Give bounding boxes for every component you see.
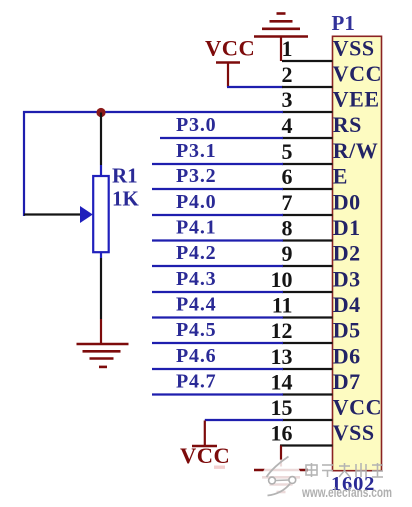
svg-text:P4.3: P4.3 (176, 268, 216, 290)
svg-text:P3.1: P3.1 (176, 140, 216, 162)
svg-text:RS: RS (333, 112, 362, 137)
wire net P4.6 (pin 13) (152, 368, 283, 370)
wire net P3.2 (pin 6) (152, 188, 283, 190)
wire net P4.3 (pin 10) (152, 291, 283, 293)
ground (bottom left) (77, 344, 129, 367)
svg-text:R/W: R/W (333, 138, 379, 163)
svg-text:D5: D5 (333, 318, 361, 343)
ground stem (bottom left) (100, 319, 102, 344)
earth ground (top, above pin 1) (254, 14, 308, 62)
svg-text:VSS: VSS (333, 36, 375, 61)
svg-text:9: 9 (282, 241, 293, 266)
wire VCC to pin 2 (227, 86, 283, 88)
svg-text:14: 14 (271, 370, 293, 395)
junction dot at R1 top net (96, 108, 105, 117)
pin 9 (282, 241, 361, 267)
pin 7 (282, 190, 361, 216)
svg-text:8: 8 (282, 216, 293, 241)
svg-text:P3.2: P3.2 (176, 165, 216, 187)
watermark logo circle (261, 457, 302, 501)
pin 5 (282, 138, 379, 164)
wire pin 16 down to ground (280, 446, 282, 467)
wire net P4.4 (pin 11) (152, 316, 283, 318)
pin 16 (271, 420, 375, 446)
svg-text:D0: D0 (333, 190, 361, 215)
wire net P3.1 (pin 5) (152, 163, 283, 165)
svg-text:5: 5 (282, 139, 293, 164)
wire pin 3 to R1 top (horizontal) (23, 111, 283, 113)
wire net P4.2 (pin 9) (152, 265, 283, 267)
ground (bottom right) (254, 470, 308, 492)
svg-text:VCC: VCC (205, 36, 255, 61)
power VCC (top) (205, 36, 255, 88)
svg-text:E: E (333, 164, 348, 189)
pin 8 (282, 215, 361, 241)
pin 3 (282, 87, 380, 113)
pin 13 (271, 344, 361, 370)
R1 top pin (blue) (100, 165, 102, 176)
wire net P4.7 (pin 14) (152, 393, 283, 395)
potentiometer wiper arrow (80, 206, 93, 223)
svg-text:VEE: VEE (333, 87, 380, 112)
svg-text:6: 6 (282, 164, 293, 189)
svg-text:D6: D6 (333, 344, 361, 369)
svg-text:R1: R1 (112, 164, 138, 188)
svg-text:P4.1: P4.1 (176, 217, 216, 239)
wire junction down to R1 (black) (100, 113, 102, 166)
wire net P4.1 (pin 8) (152, 239, 283, 241)
svg-text:VCC: VCC (333, 395, 382, 420)
svg-text:VCC: VCC (333, 61, 382, 86)
svg-text:www.elecfans.com: www.elecfans.com (301, 484, 392, 500)
svg-text:15: 15 (271, 395, 293, 420)
R1 bottom pin (blue) (100, 252, 102, 258)
svg-text:P3.0: P3.0 (176, 114, 216, 136)
power VCC (bottom) (180, 421, 230, 469)
svg-text:10: 10 (271, 267, 293, 292)
wire wiper loop bottom horizontal (24, 213, 80, 215)
wire R1 bottom to ground (black) (100, 258, 102, 319)
svg-text:P4.6: P4.6 (176, 345, 216, 367)
svg-text:P4.5: P4.5 (176, 319, 216, 341)
pin 15 (271, 395, 382, 421)
pin 1 (282, 36, 375, 62)
watermark faint dash (left of logo) (214, 466, 225, 469)
potentiometer R1 body (93, 176, 109, 252)
wire wiper loop left vertical (23, 111, 25, 216)
pin 11 (272, 292, 361, 318)
connector P1 box (1602 LCD header) (333, 36, 382, 470)
wire net P4.5 (pin 12) (152, 342, 283, 344)
svg-text:P4.4: P4.4 (176, 294, 216, 316)
svg-text:D2: D2 (333, 241, 361, 266)
pin 10 (271, 267, 361, 293)
wire net P4.0 (pin 7) (152, 214, 283, 216)
svg-text:1: 1 (282, 36, 293, 61)
svg-text:D3: D3 (333, 267, 361, 292)
svg-text:P4.7: P4.7 (176, 371, 216, 393)
pin 6 (282, 164, 348, 190)
svg-text:1K: 1K (112, 187, 140, 211)
svg-text:12: 12 (271, 318, 293, 343)
svg-text:7: 7 (282, 190, 293, 215)
wire pin 15 to VCC (bottom) (205, 419, 283, 421)
svg-text:13: 13 (271, 344, 293, 369)
svg-text:16: 16 (271, 421, 293, 446)
svg-text:3: 3 (282, 87, 293, 112)
svg-text:P1: P1 (332, 11, 355, 35)
svg-text:P4.2: P4.2 (176, 242, 216, 264)
svg-text:P4.0: P4.0 (176, 191, 216, 213)
pin 12 (271, 318, 361, 344)
svg-text:D1: D1 (333, 215, 361, 240)
svg-text:11: 11 (272, 293, 293, 318)
svg-text:D7: D7 (333, 369, 361, 394)
pin 14 (271, 369, 361, 395)
wire net P3.0 (pin 4) (160, 137, 283, 139)
pin 4 (282, 112, 362, 138)
svg-text:2: 2 (282, 62, 293, 87)
svg-text:4: 4 (282, 113, 293, 138)
svg-text:VCC: VCC (180, 443, 230, 468)
svg-text:VSS: VSS (333, 420, 375, 445)
svg-text:D4: D4 (333, 292, 361, 317)
watermark text 电子发烧友 (drawn strokes) (306, 463, 383, 477)
pin 2 (282, 61, 382, 87)
